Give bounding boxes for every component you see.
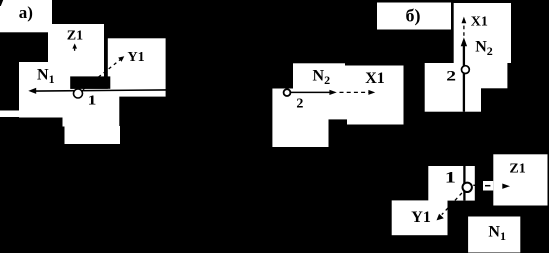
svg-text:Y1: Y1 [411, 209, 431, 226]
svg-text:2: 2 [296, 97, 303, 112]
svg-text:1: 1 [88, 93, 97, 108]
svg-text:X1: X1 [365, 70, 385, 87]
svg-text:б): б) [406, 6, 421, 27]
svg-text:а): а) [19, 3, 33, 22]
svg-text:Z1: Z1 [67, 29, 83, 44]
svg-text:1: 1 [445, 169, 456, 186]
svg-text:Z1: Z1 [509, 162, 525, 177]
svg-text:X1: X1 [471, 15, 488, 30]
svg-text:Y1: Y1 [128, 50, 145, 65]
svg-text:2: 2 [446, 68, 456, 84]
